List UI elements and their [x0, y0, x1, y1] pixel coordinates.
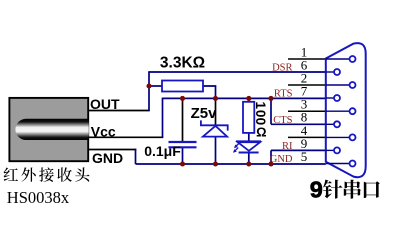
svg-text:GND: GND	[270, 154, 293, 165]
svg-text:OUT: OUT	[90, 96, 120, 112]
svg-text:DSR: DSR	[272, 63, 292, 74]
svg-text:9: 9	[310, 177, 323, 203]
svg-text:Z5v: Z5v	[191, 105, 218, 122]
svg-text:RTS: RTS	[274, 89, 293, 100]
svg-text:5: 5	[301, 149, 308, 164]
svg-text:RI: RI	[282, 141, 293, 152]
svg-text:GND: GND	[92, 150, 123, 166]
svg-text:3.3KΩ: 3.3KΩ	[160, 55, 205, 72]
svg-text:HS0038x: HS0038x	[7, 188, 70, 207]
svg-text:Vcc: Vcc	[91, 124, 116, 140]
svg-text:0.1μF: 0.1μF	[144, 143, 181, 159]
svg-text:0: 0	[253, 110, 268, 118]
svg-text:CTS: CTS	[273, 115, 292, 126]
svg-text:Ω: Ω	[256, 124, 266, 139]
svg-text:1: 1	[253, 102, 268, 110]
